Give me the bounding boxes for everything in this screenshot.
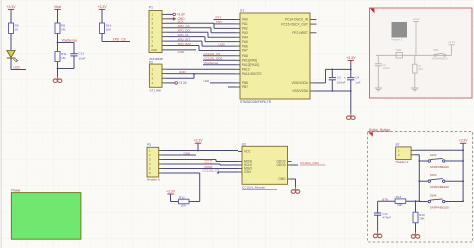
header block dimmed [392,22,408,38]
wire CC1101_CS [203,55,236,57]
LED D1 [7,51,18,63]
svg-text:PC15-OSCX_OUT: PC15-OSCX_OUT [281,22,308,26]
svg-text:XPD_CS: XPD_CS [113,38,127,42]
svg-text:SW4: SW4 [430,193,437,197]
svg-text:PA6: PA6 [242,44,248,48]
svg-text:Header 2: Header 2 [396,160,409,164]
svg-text:10K: 10K [397,203,403,207]
wire [350,60,352,69]
wire P3.3 MOSI [163,159,216,161]
svg-text:Vbat: Vbat [54,5,61,9]
sheet left edge [0,0,2,248]
wire P1.6 to U1 [167,36,205,38]
svg-text:+: + [344,76,346,80]
marker arrow [368,132,373,137]
wire P2.2 to U1 PA14-BOOT0 [167,73,237,75]
svg-text:PA8: PA8 [242,54,248,58]
wire P2.4 to power [167,82,176,84]
wire P3.4 SCLK [163,163,220,165]
wire P3.2 GND [163,154,196,156]
svg-text:VDD/VDDA: VDD/VDDA [292,81,309,85]
svg-text:1uF: 1uF [355,80,360,84]
svg-text:PF2-NRST: PF2-NRST [292,31,308,35]
svg-text:PA5: PA5 [242,40,248,44]
junction [331,90,333,92]
connector P3 [147,143,163,181]
svg-text:R13: R13 [396,195,402,199]
svg-text:PA13: PA13 [242,68,250,72]
resistor R10 [415,201,417,212]
wire [10,9,12,23]
ground dimmed 2 [414,86,416,88]
svg-text:SKRPABE010: SKRPABE010 [430,185,449,189]
svg-text:U2: U2 [242,142,246,146]
svg-text:PA3: PA3 [242,31,248,35]
wire right bus [462,143,464,201]
connector P7 [396,143,415,164]
svg-text:BTN: BTN [382,197,388,201]
connector P1 [149,6,167,62]
wire [170,194,172,202]
svg-text:C4: C4 [355,75,359,79]
wire P1.PAD GND [162,49,196,51]
wire P1.5 to U1 [167,31,208,33]
ground dimmed 1 [377,86,379,88]
svg-text:LED: LED [14,66,21,70]
svg-text:Header 6: Header 6 [147,178,160,182]
svg-text:SW1: SW1 [396,48,402,52]
switch dimmed SKRPABE010 [434,54,436,56]
svg-text:10nF: 10nF [78,57,85,61]
svg-text:GND: GND [278,177,286,181]
svg-text:PA12[PA10]: PA12[PA10] [242,63,259,67]
resistor R8 [55,23,60,34]
resistor R14 [100,23,105,34]
wire P2.3 joins BOOT0 [167,77,195,79]
svg-text:ST LINK: ST LINK [150,88,163,92]
svg-text:P3: P3 [147,143,151,147]
svg-text:Button_Bottom: Button_Bottom [369,128,390,132]
pin GDO2 stub [288,161,292,163]
block Power [11,188,81,239]
wire [10,58,12,69]
svg-text:10K: 10K [106,27,112,31]
wire P2.1 to U1 PA13 [167,68,237,70]
svg-text:+3.3V: +3.3V [194,139,204,143]
svg-text:P7: P7 [396,143,400,147]
pin VSS stub [310,90,315,92]
switch SW4 [419,193,463,209]
svg-text:+3.3V: +3.3V [412,17,420,21]
wire U1 PB7 stub [228,86,236,88]
ground [415,232,417,234]
svg-text:PA7: PA7 [242,49,248,53]
svg-text:PA14-BOOT0: PA14-BOOT0 [242,72,262,76]
svg-text:+3.3V: +3.3V [459,139,469,143]
wire [73,56,75,69]
wire to ground [350,91,352,114]
svg-text:470nF: 470nF [382,216,391,220]
wire [57,9,59,23]
svg-text:CC1101_Module: CC1101_Module [242,186,265,190]
svg-text:LED: LED [204,79,211,83]
svg-text:XPD_BAT: XPD_BAT [178,42,192,46]
junction [57,42,59,44]
svg-text:XPD_INT: XPD_INT [178,37,191,41]
wire P3.6 / CSN [163,172,200,174]
svg-text:SCK: SCK [178,20,184,24]
svg-text:PA2: PA2 [242,27,248,31]
connector P2 [149,60,167,92]
svg-text:USD: USD [219,42,226,46]
wire VDD rail [315,82,326,84]
power +3.3V at P2.4 [175,82,178,85]
wire [101,34,103,42]
resistor R12 [179,199,190,204]
wire LED to U1 PB6 [210,82,236,84]
pin VDD stub [310,82,315,84]
switch SW3 [418,173,464,189]
ground [57,77,59,79]
resistor R13 [395,199,406,204]
svg-text:VSS/VSSA: VSS/VSSA [292,89,309,93]
svg-text:VbatSense: VbatSense [204,61,219,65]
capacitor C11 [377,201,379,213]
pin PC14 stub [310,19,317,21]
wire P3.5 MISO [163,168,224,170]
svg-text:GND: GND [184,151,192,155]
op-amp U1 MCU STM32G030 [236,9,317,104]
svg-text:104nF: 104nF [383,66,391,70]
svg-text:PA11[PA9]: PA11[PA9] [242,59,257,63]
wire [10,34,12,51]
svg-text:CC1101_GD0: CC1101_GD0 [204,57,223,61]
svg-text:+3.3V: +3.3V [448,40,456,44]
svg-text:PA0: PA0 [242,18,248,22]
svg-text:+3.3V: +3.3V [346,56,356,60]
svg-text:XPD_CS: XPD_CS [178,24,190,28]
wire PA1 [214,23,237,25]
wire PA0 [214,19,237,21]
pin GND stub [288,178,292,180]
ground [350,114,352,116]
svg-text:SKRPABE010: SKRPABE010 [432,56,449,60]
svg-text:SW2: SW2 [430,153,437,157]
svg-text:U1: U1 [240,9,244,13]
wire GND to ground [292,178,296,180]
wire [57,62,59,77]
svg-text:VCC: VCC [244,150,251,154]
wire dimmed [376,54,452,56]
svg-text:XPD_DO: XPD_DO [178,29,191,33]
svg-text:10K: 10K [418,67,423,71]
wire P1.8 to U1 [167,45,199,47]
wire BTN row [378,200,420,202]
wire VbatSense [203,64,236,66]
wire [101,9,103,23]
junction [415,200,417,202]
capacitor C4 [350,69,352,77]
wire P7.2 left bus [415,154,419,156]
svg-text:10K: 10K [419,217,425,221]
svg-text:CSN: CSN [244,170,251,174]
capacitor C12 [73,52,75,54]
wire P1.3 to U1 [167,22,214,24]
svg-text:GND: GND [179,70,187,74]
power GND at P1.2 [173,17,176,21]
pin NRST stub [310,32,317,34]
wire [57,34,59,52]
svg-text:GDO0: GDO0 [276,163,285,167]
ground [295,187,297,189]
svg-text:1M: 1M [61,56,66,60]
wire P3.1 VCC [163,150,238,152]
svg-text:CC1101_CS: CC1101_CS [203,168,220,172]
resistor R9 [9,23,14,34]
svg-text:PB7: PB7 [242,85,248,89]
svg-text:10K: 10K [181,204,187,208]
svg-text:+3.3V: +3.3V [166,189,176,193]
dimmed block Button_Top [370,8,473,98]
svg-text:XPD_DI: XPD_DI [178,33,189,37]
pin GDO0 stub [288,164,292,166]
svg-text:CC1101_GD0: CC1101_GD0 [300,161,319,165]
svg-text:2M: 2M [61,27,66,31]
resistor R11 [55,52,60,62]
junction [331,69,333,71]
marker A [370,9,374,14]
wire GDO0 [292,164,299,166]
capacitor dimmed [377,55,379,64]
block Button_Bottom [368,128,473,242]
wire pin1 to power [167,13,173,15]
svg-text:GND: GND [178,50,186,54]
switch SW2 [418,153,464,169]
wire VSS rail [315,90,351,92]
wire P1.7 to U1 [167,40,202,42]
svg-text:100nF: 100nF [337,80,346,84]
svg-text:Header 2: Header 2 [392,38,403,42]
svg-text:C12: C12 [78,52,84,56]
svg-text:SKRPABE010: SKRPABE010 [430,165,449,169]
junction [57,68,59,70]
resistor dimmed [413,64,417,73]
svg-text:SW3: SW3 [430,173,437,177]
svg-text:P1: P1 [149,6,153,10]
svg-text:SW1: SW1 [433,48,439,52]
svg-text:PAD: PAD [152,48,158,52]
svg-text:CC1101_CS: CC1101_CS [204,52,221,56]
svg-text:STM32G030F6P6-TR: STM32G030F6P6-TR [240,100,272,104]
wire P1.4 to U1 [167,27,211,29]
ground [377,232,379,234]
capacitor C3 [331,69,333,77]
wire [58,42,75,44]
svg-text:TXD: TXD [216,20,223,24]
junction [462,200,464,202]
svg-text:C3: C3 [337,75,341,79]
wire pin2 to GND port [167,18,173,20]
svg-text:R12: R12 [179,195,185,199]
wire CC1101_GD0 [203,59,236,61]
pin PC15 stub [310,23,317,25]
module U2 CC1101 [238,142,292,189]
svg-text:PC14-OSCX_IN: PC14-OSCX_IN [285,18,309,22]
svg-text:SKRPABE010: SKRPABE010 [430,206,449,210]
svg-text:+3.3V: +3.3V [179,81,188,85]
svg-text:+3.3V: +3.3V [98,5,108,9]
svg-text:RTX: RTX [216,16,222,20]
svg-text:PA1: PA1 [242,22,248,26]
svg-text:Power: Power [11,188,21,192]
svg-text:+3.3V: +3.3V [7,5,17,9]
svg-text:PA4: PA4 [242,35,248,39]
power +3.3V at P1.1 [173,13,176,16]
switch dimmed TS [396,52,403,58]
wire P7.1 [415,149,463,151]
svg-text:+3.3V: +3.3V [177,13,186,17]
